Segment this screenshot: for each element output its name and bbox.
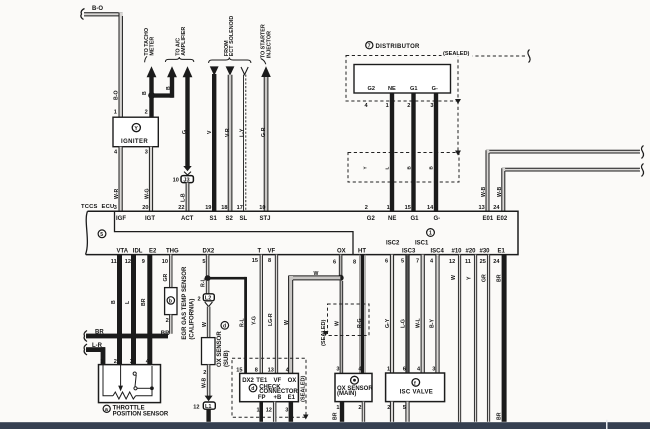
svg-text:NE: NE	[388, 216, 396, 222]
svg-text:2: 2	[387, 405, 390, 411]
svg-text:13: 13	[479, 205, 485, 211]
svg-text:6: 6	[403, 367, 406, 373]
svg-text:2: 2	[198, 296, 201, 302]
svg-text:11: 11	[111, 259, 117, 265]
svg-text:G2: G2	[367, 216, 376, 222]
svg-text:ECT SOLENOID: ECT SOLENOID	[229, 16, 235, 57]
svg-text:L-R: L-R	[92, 343, 103, 349]
svg-text:E1: E1	[288, 395, 296, 401]
svg-text:1: 1	[387, 367, 390, 373]
svg-text:LG-R: LG-R	[268, 313, 274, 326]
svg-text:VTA: VTA	[117, 248, 129, 254]
svg-text:b: b	[169, 299, 172, 305]
svg-text:10: 10	[173, 178, 179, 184]
svg-text:17: 17	[237, 205, 243, 211]
svg-text:#30: #30	[480, 248, 491, 254]
svg-text:(MAIN): (MAIN)	[337, 391, 356, 397]
svg-text:2: 2	[365, 205, 368, 211]
svg-text:Y: Y	[134, 126, 138, 132]
svg-text:AMPLIFIER: AMPLIFIER	[181, 27, 187, 56]
svg-text:d: d	[251, 386, 254, 392]
svg-text:S2: S2	[226, 216, 234, 222]
svg-text:IGNITER: IGNITER	[121, 139, 148, 145]
svg-text:W: W	[451, 275, 457, 280]
svg-text:IGT: IGT	[145, 216, 155, 222]
svg-text:G-: G-	[434, 216, 441, 222]
svg-text:12: 12	[125, 259, 131, 265]
svg-text:INJECTOR: INJECTOR	[266, 31, 272, 58]
svg-text:V-R: V-R	[225, 128, 231, 137]
svg-text:#10: #10	[452, 248, 463, 254]
svg-text:DISTRIBUTOR: DISTRIBUTOR	[376, 44, 421, 50]
svg-text:5: 5	[202, 259, 205, 265]
svg-text:G-R: G-R	[261, 127, 267, 137]
svg-text:25: 25	[480, 259, 486, 265]
svg-text:TCCS: TCCS	[81, 204, 98, 210]
svg-text:BR: BR	[141, 298, 147, 306]
svg-text:BR: BR	[95, 329, 104, 335]
svg-text:G1: G1	[411, 216, 420, 222]
svg-text:G1: G1	[410, 86, 417, 92]
svg-text:L1: L1	[205, 404, 212, 410]
svg-text:3: 3	[336, 367, 339, 373]
svg-text:FP: FP	[258, 395, 266, 401]
svg-text:L-Y: L-Y	[240, 128, 246, 137]
svg-text:2: 2	[203, 370, 206, 376]
svg-text:Y: Y	[363, 166, 368, 169]
svg-text:E02: E02	[497, 216, 508, 222]
svg-text:3: 3	[130, 359, 133, 365]
svg-text:B: B	[166, 86, 172, 90]
svg-text:ISC4: ISC4	[431, 248, 445, 254]
svg-text:S1: S1	[210, 216, 218, 222]
svg-text:2: 2	[114, 359, 117, 365]
svg-text:W: W	[335, 321, 341, 326]
svg-text:19: 19	[205, 205, 211, 211]
svg-text:G: G	[182, 130, 188, 134]
svg-text:(SEALED): (SEALED)	[300, 375, 306, 402]
svg-text:18: 18	[221, 205, 227, 211]
svg-text:1: 1	[336, 405, 339, 411]
svg-text:VF: VF	[268, 248, 276, 254]
svg-text:VF: VF	[274, 378, 282, 384]
svg-text:W: W	[284, 320, 290, 325]
svg-text:1: 1	[114, 109, 117, 115]
svg-text:3: 3	[285, 407, 288, 413]
svg-text:5: 5	[100, 232, 103, 238]
svg-text:G2: G2	[368, 86, 375, 92]
svg-text:G-Y: G-Y	[385, 318, 391, 328]
svg-text:2: 2	[145, 109, 148, 115]
svg-text:d: d	[223, 324, 226, 330]
svg-text:8: 8	[255, 367, 258, 373]
svg-text:6: 6	[385, 258, 388, 264]
svg-text:1: 1	[387, 205, 390, 211]
svg-text:OX: OX	[337, 248, 346, 254]
svg-text:9: 9	[142, 259, 145, 265]
svg-text:(CALIFORNIA): (CALIFORNIA)	[190, 299, 196, 340]
svg-text:22: 22	[178, 205, 184, 211]
svg-text:W: W	[314, 271, 319, 277]
svg-text:Y: Y	[467, 276, 473, 280]
svg-text:3: 3	[145, 150, 148, 156]
svg-text:24: 24	[493, 259, 500, 265]
svg-text:3: 3	[114, 205, 117, 211]
svg-text:TE1: TE1	[256, 378, 268, 384]
svg-text:10: 10	[259, 205, 265, 211]
svg-text:3: 3	[432, 367, 435, 373]
svg-text:13: 13	[268, 367, 274, 373]
svg-text:2: 2	[407, 103, 410, 109]
svg-text:5: 5	[401, 258, 404, 264]
svg-text:1: 1	[257, 407, 260, 413]
svg-text:EGR GAS TEMP SENSOR: EGR GAS TEMP SENSOR	[182, 266, 188, 340]
svg-text:W-B: W-B	[481, 186, 487, 197]
svg-text:15: 15	[252, 258, 258, 264]
svg-text:CONNECTOR: CONNECTOR	[259, 389, 298, 395]
svg-text:1: 1	[100, 359, 103, 365]
svg-text:15: 15	[405, 205, 411, 211]
svg-text:L-G: L-G	[401, 319, 407, 328]
svg-text:R-L: R-L	[240, 318, 246, 327]
svg-text:OX SENSOR: OX SENSOR	[217, 331, 223, 367]
svg-text:2: 2	[166, 318, 169, 324]
svg-text:R-G: R-G	[357, 318, 363, 328]
svg-text:B-O: B-O	[114, 90, 120, 100]
svg-text:THG: THG	[166, 248, 179, 254]
svg-text:STJ: STJ	[260, 216, 271, 222]
svg-text:DX2: DX2	[242, 378, 254, 384]
svg-text:HT: HT	[358, 248, 366, 254]
svg-text:ISC3: ISC3	[402, 248, 416, 254]
svg-text:W-L: W-L	[416, 317, 422, 328]
svg-text:E2: E2	[149, 248, 157, 254]
svg-text:10: 10	[162, 259, 168, 265]
svg-text:20: 20	[142, 205, 148, 211]
svg-text:a: a	[105, 407, 108, 413]
svg-text:2: 2	[358, 405, 361, 411]
svg-text:ISC2: ISC2	[386, 241, 400, 247]
svg-text:7: 7	[368, 43, 371, 49]
svg-text:+B: +B	[274, 395, 283, 401]
svg-text:#20: #20	[466, 248, 477, 254]
svg-text:IDL: IDL	[133, 248, 143, 254]
svg-text:W-B: W-B	[497, 186, 503, 197]
svg-text:L: L	[385, 167, 390, 170]
svg-text:METER: METER	[149, 37, 155, 56]
svg-text:(SEALED): (SEALED)	[443, 51, 470, 57]
svg-text:ISC VALVE: ISC VALVE	[400, 390, 433, 396]
svg-text:24: 24	[493, 205, 500, 211]
svg-text:6: 6	[333, 259, 336, 265]
svg-text:12: 12	[193, 404, 199, 410]
svg-text:1: 1	[386, 103, 389, 109]
svg-text:BR: BR	[496, 412, 502, 420]
svg-text:W: W	[202, 322, 208, 327]
svg-text:W-R: W-R	[114, 188, 120, 199]
svg-text:W-B: W-B	[201, 377, 207, 388]
svg-text:V: V	[207, 130, 213, 134]
svg-text:Y-G: Y-G	[251, 316, 257, 325]
svg-text:3: 3	[430, 103, 433, 109]
svg-text:B: B	[111, 300, 117, 304]
svg-text:ISC1: ISC1	[415, 241, 429, 247]
svg-text:T: T	[258, 248, 262, 254]
svg-text:12: 12	[449, 259, 455, 265]
svg-text:E01: E01	[483, 216, 494, 222]
svg-text:NE: NE	[388, 86, 396, 92]
svg-text:IGF: IGF	[116, 216, 126, 222]
svg-text:B: B	[142, 91, 148, 95]
svg-text:L2: L2	[205, 296, 212, 302]
svg-text:7: 7	[416, 258, 419, 264]
svg-text:12: 12	[266, 407, 272, 413]
svg-text:E1: E1	[498, 248, 506, 254]
svg-text:15: 15	[236, 367, 242, 373]
svg-text:1: 1	[429, 231, 432, 237]
svg-text:8: 8	[353, 259, 356, 265]
svg-text:GR: GR	[163, 273, 169, 281]
svg-text:8: 8	[268, 258, 271, 264]
svg-text:W-G: W-G	[144, 188, 150, 199]
svg-text:J3: J3	[183, 177, 189, 183]
svg-text:BR: BR	[496, 274, 502, 282]
svg-text:OX: OX	[288, 378, 297, 384]
svg-text:BR: BR	[333, 412, 339, 420]
svg-text:DX2: DX2	[203, 248, 215, 254]
svg-text:B-Y: B-Y	[430, 319, 436, 328]
svg-text:POSITION SENSOR: POSITION SENSOR	[113, 411, 169, 417]
svg-text:SL: SL	[240, 216, 248, 222]
svg-text:(SUB): (SUB)	[224, 350, 230, 367]
svg-text:14: 14	[427, 205, 434, 211]
svg-text:GR: GR	[481, 274, 487, 282]
svg-text:ECU: ECU	[102, 204, 115, 210]
svg-text:B-O: B-O	[92, 6, 103, 12]
svg-text:G-: G-	[432, 86, 438, 92]
svg-text:L-B: L-B	[181, 193, 187, 202]
svg-text:11: 11	[465, 259, 471, 265]
svg-text:ACT: ACT	[181, 216, 194, 222]
svg-text:f: f	[414, 381, 416, 387]
